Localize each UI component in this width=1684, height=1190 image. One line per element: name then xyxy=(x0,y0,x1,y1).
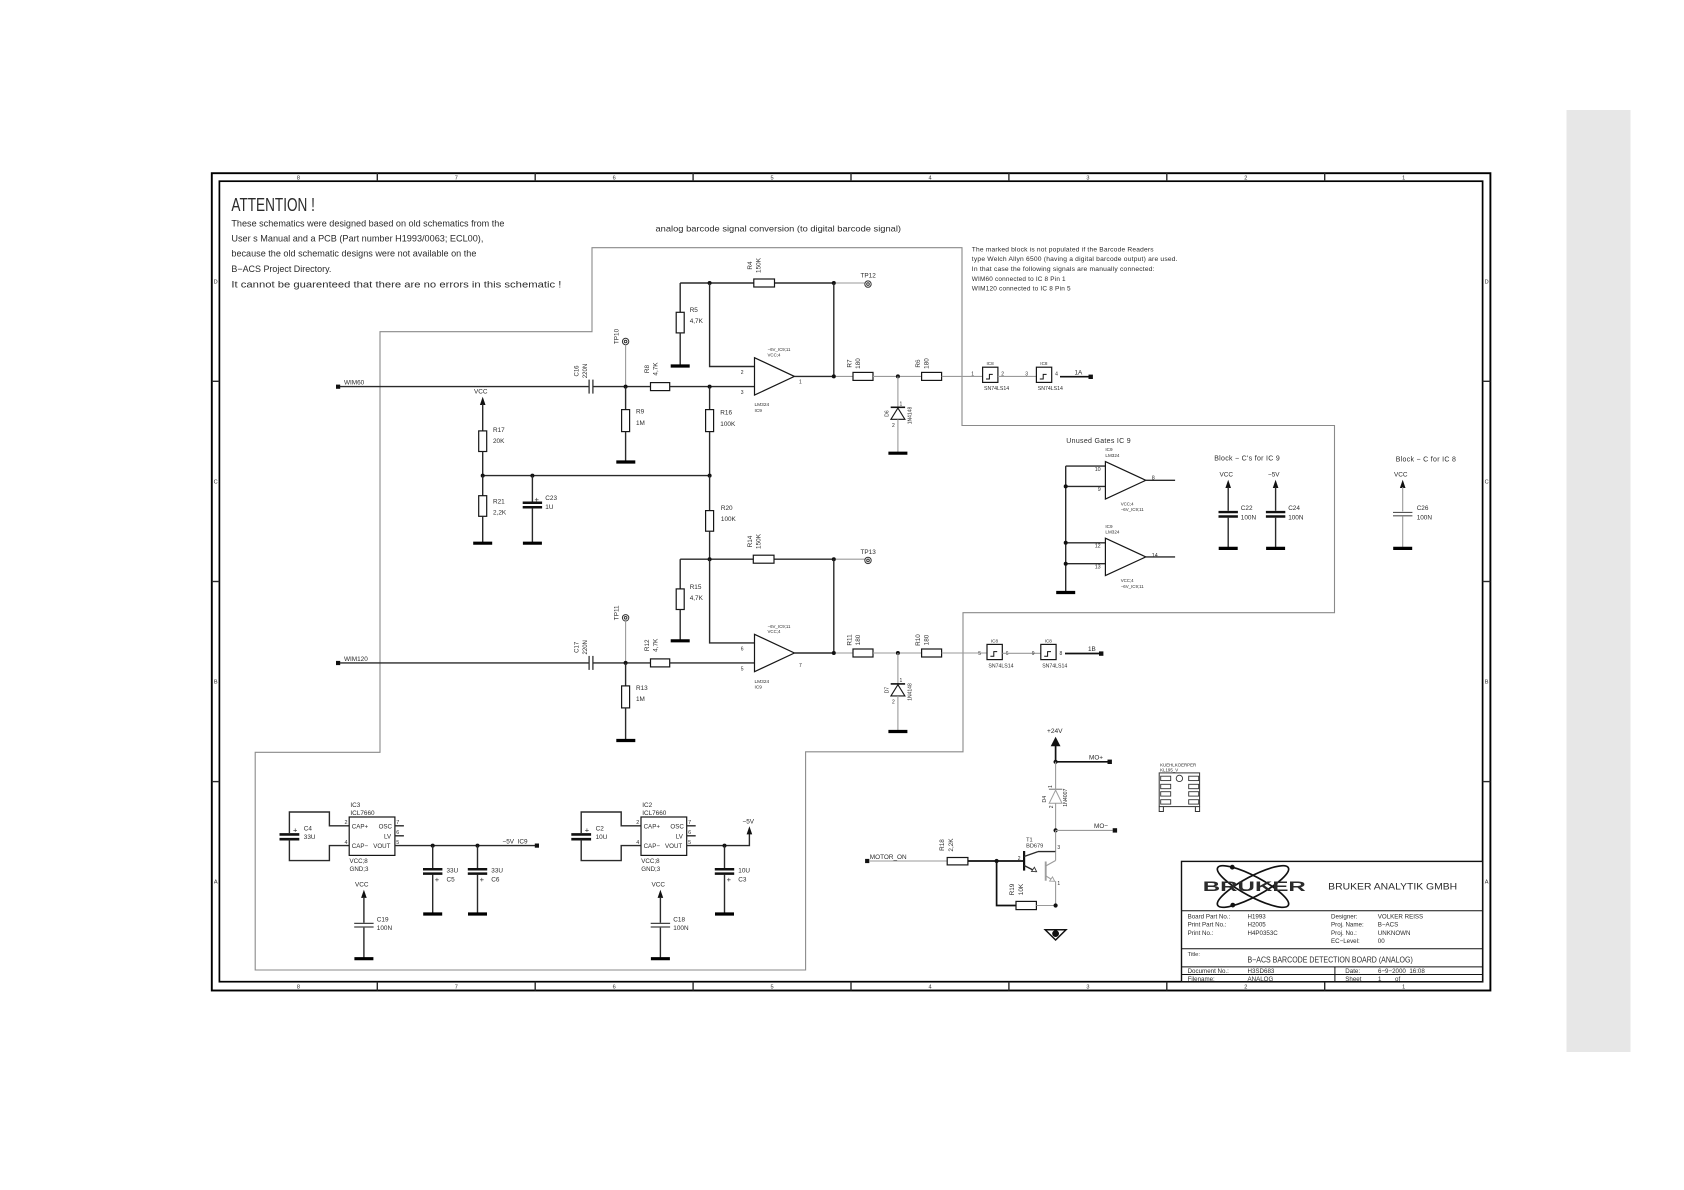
svg-text:2: 2 xyxy=(1018,856,1021,862)
svg-text:10: 10 xyxy=(1095,467,1101,473)
svg-text:VCC;4: VCC;4 xyxy=(1121,578,1134,583)
resistor R16 xyxy=(706,387,736,476)
svg-text:C18: C18 xyxy=(673,916,685,923)
power VCC arrow above C19 xyxy=(355,882,369,923)
svg-text:10U: 10U xyxy=(738,868,750,875)
svg-text:9: 9 xyxy=(1098,487,1101,493)
svg-text:These schematics were designed: These schematics were designed based on … xyxy=(231,218,504,228)
node junction feedback/TP13 xyxy=(832,557,836,561)
svg-text:6−9−2000_16:08: 6−9−2000_16:08 xyxy=(1378,968,1425,975)
wire IC2 VOUT to -5V arrow xyxy=(687,833,750,846)
svg-text:VCC: VCC xyxy=(355,882,369,889)
IC U IC3 ICL7660 xyxy=(345,802,400,873)
svg-text:WIM60 connected to IC 8 Pin 1: WIM60 connected to IC 8 Pin 1 xyxy=(972,276,1066,283)
ground under C22 xyxy=(1219,547,1238,550)
node WIM60 input xyxy=(336,380,365,389)
capacitor C4 xyxy=(280,825,316,841)
svg-text:1N4148: 1N4148 xyxy=(908,683,914,701)
svg-text:LV: LV xyxy=(676,833,684,840)
ground under D6 xyxy=(888,452,907,455)
svg-text:VCC: VCC xyxy=(652,882,666,889)
resistor R8 xyxy=(644,362,670,391)
wire C4 to IC3 CAP- xyxy=(289,840,349,861)
wire pin9 stub xyxy=(1064,484,1106,488)
op-amp U IC9D unused xyxy=(1095,524,1158,589)
wire IC9D output stub xyxy=(1146,556,1175,558)
svg-text:C2: C2 xyxy=(596,825,605,832)
svg-text:R17: R17 xyxy=(493,427,505,434)
wire R12 to opamp pin5 xyxy=(670,662,755,664)
Bruker logo xyxy=(1203,859,1306,914)
wire WIM60 to C16 xyxy=(340,386,589,388)
resistor R11 xyxy=(847,634,874,657)
node junction C3 tap xyxy=(723,844,727,848)
node MO+ terminal xyxy=(1089,754,1112,764)
document row xyxy=(1188,968,1426,983)
wire pin6 branch xyxy=(710,559,755,643)
svg-text:C: C xyxy=(214,480,218,486)
resistor R10 xyxy=(915,634,942,657)
svg-text:ICL7660: ICL7660 xyxy=(350,810,375,817)
svg-text:ATTENTION !: ATTENTION ! xyxy=(231,195,315,216)
svg-text:4,7K: 4,7K xyxy=(690,318,704,325)
svg-text:100N: 100N xyxy=(1241,515,1257,522)
svg-text:+: + xyxy=(585,825,590,834)
svg-text:CAP−: CAP− xyxy=(352,843,369,850)
svg-text:D7: D7 xyxy=(885,687,891,694)
inner drawing frame xyxy=(219,181,1482,982)
test point TP13 xyxy=(861,549,877,564)
svg-text:C24: C24 xyxy=(1288,505,1300,512)
wire R11 to R10 xyxy=(873,652,922,654)
svg-text:180: 180 xyxy=(855,358,862,369)
svg-text:20K: 20K xyxy=(493,438,505,445)
svg-text:2,2K: 2,2K xyxy=(493,510,507,517)
wire IC9C output stub xyxy=(1146,479,1175,481)
svg-text:of: of xyxy=(1395,976,1400,983)
svg-text:B−ACS Project Directory.: B−ACS Project Directory. xyxy=(231,264,331,274)
node junction D6 tap xyxy=(896,374,900,378)
power VCC arrow above R17 xyxy=(474,389,488,431)
svg-text:1: 1 xyxy=(900,678,903,684)
ground under C19 xyxy=(354,957,373,960)
svg-text:−6V_IC9;11: −6V_IC9;11 xyxy=(768,624,792,629)
wire R19 to emitter xyxy=(1036,905,1055,907)
svg-text:1: 1 xyxy=(900,402,903,408)
svg-text:R9: R9 xyxy=(636,409,645,416)
svg-text:KL195_V: KL195_V xyxy=(1160,768,1178,773)
svg-text:8: 8 xyxy=(297,176,300,182)
svg-text:4: 4 xyxy=(928,985,931,991)
svg-text:because the old schematic desi: because the old schematic designs were n… xyxy=(231,249,476,259)
board title xyxy=(1188,952,1413,965)
wire R5 branch vertical xyxy=(679,283,681,312)
wire R15 branch vertical xyxy=(679,559,681,589)
svg-text:Proj. No.:: Proj. No.: xyxy=(1331,930,1357,937)
svg-text:150K: 150K xyxy=(756,257,763,273)
svg-text:3: 3 xyxy=(1086,176,1089,182)
svg-text:5: 5 xyxy=(741,666,744,672)
svg-text:2: 2 xyxy=(1244,985,1247,991)
power -5V arrow for IC2 xyxy=(743,818,755,834)
svg-text:VCC: VCC xyxy=(474,389,488,396)
svg-text:−5V: −5V xyxy=(743,818,755,825)
svg-text:IC8: IC8 xyxy=(987,361,995,366)
wire feedback down to output xyxy=(833,283,835,376)
resistor R12 xyxy=(644,638,670,667)
svg-text:Proj. Name:: Proj. Name: xyxy=(1331,922,1364,929)
svg-text:IC3: IC3 xyxy=(350,802,360,809)
power VCC arrow above C26 xyxy=(1394,472,1408,512)
svg-text:R7: R7 xyxy=(847,359,854,368)
svg-text:Block − C for IC 8: Block − C for IC 8 xyxy=(1396,456,1456,463)
wire TP10 stem xyxy=(625,345,627,387)
wire R7 to R6 xyxy=(873,375,922,377)
sheet caption: analog barcode signal conversion xyxy=(656,224,902,234)
svg-text:13: 13 xyxy=(1095,564,1101,570)
resistor R21 xyxy=(479,476,507,544)
wire feedback line ch1 xyxy=(680,282,865,284)
power -5V arrow above C24 xyxy=(1268,472,1280,511)
wire MOTOR_ON to R18 xyxy=(869,860,947,862)
svg-text:1M: 1M xyxy=(636,696,645,703)
capacitor C22 xyxy=(1219,505,1257,548)
svg-text:type Welch Allyn 6500 (having: type Welch Allyn 6500 (having a digital … xyxy=(972,256,1178,263)
node junction MO- xyxy=(1054,828,1058,832)
svg-text:D: D xyxy=(1485,279,1489,285)
attention body text xyxy=(231,218,561,290)
svg-text:H4P0353C: H4P0353C xyxy=(1248,930,1279,937)
ground bar under C6 xyxy=(468,912,487,915)
svg-text:D6: D6 xyxy=(885,410,891,417)
svg-text:B−ACS BARCODE DETECTION BOARD: B−ACS BARCODE DETECTION BOARD (ANALOG) xyxy=(1248,956,1414,965)
node junction C23 tap xyxy=(530,474,534,478)
op-amp U IC9A xyxy=(741,347,802,414)
note text block xyxy=(972,246,1178,292)
part numbers xyxy=(1188,913,1424,945)
svg-text:LM324: LM324 xyxy=(1105,529,1119,534)
node junction feedback top of pin2 xyxy=(708,281,712,285)
wire pin12 stub xyxy=(1064,541,1106,545)
svg-text:Print No.:: Print No.: xyxy=(1188,930,1214,937)
svg-text:VCC: VCC xyxy=(1394,472,1408,479)
svg-text:IC8: IC8 xyxy=(1045,638,1053,643)
resistor R15 xyxy=(676,584,703,641)
capacitor C16 xyxy=(575,364,593,394)
svg-text:C6: C6 xyxy=(491,876,500,883)
svg-text:00: 00 xyxy=(1378,938,1385,945)
svg-text:VOLKER REISS: VOLKER REISS xyxy=(1378,913,1423,920)
svg-text:WIM60: WIM60 xyxy=(344,380,365,387)
svg-text:100N: 100N xyxy=(1417,515,1433,522)
wire IC8D output to 1B xyxy=(1065,653,1101,655)
node junction MO+ xyxy=(1054,760,1058,764)
title block border xyxy=(1182,861,1483,981)
svg-text:Document No.:: Document No.: xyxy=(1188,968,1230,975)
svg-text:R11: R11 xyxy=(847,634,854,646)
resistor R5 xyxy=(676,307,703,366)
ATTENTION heading xyxy=(231,195,315,216)
schmitt trigger IC8D xyxy=(1032,638,1068,669)
svg-text:2: 2 xyxy=(1049,805,1055,808)
svg-text:100N: 100N xyxy=(377,925,393,932)
IC U IC2 ICL7660 xyxy=(636,802,691,873)
svg-text:2: 2 xyxy=(892,700,895,706)
transistor T1 BD679 xyxy=(1018,838,1061,906)
svg-text:H3SD683: H3SD683 xyxy=(1248,968,1275,975)
wire R19 branch xyxy=(997,861,1016,906)
svg-text:LM324: LM324 xyxy=(755,679,770,685)
wire pin13 stub xyxy=(1064,562,1106,566)
svg-text:B: B xyxy=(1485,680,1489,686)
svg-text:180: 180 xyxy=(855,634,862,645)
svg-text:BD679: BD679 xyxy=(1026,844,1043,850)
svg-text:VCC;4: VCC;4 xyxy=(768,629,781,634)
svg-text:4: 4 xyxy=(928,176,931,182)
svg-text:TP10: TP10 xyxy=(614,328,621,344)
svg-text:R19: R19 xyxy=(1009,883,1016,895)
svg-text:33U: 33U xyxy=(447,868,459,875)
svg-text:12: 12 xyxy=(1095,544,1101,550)
node 1A output xyxy=(1075,369,1093,379)
svg-text:VCC;4: VCC;4 xyxy=(1121,501,1134,506)
svg-text:1: 1 xyxy=(1378,976,1382,983)
svg-text:100N: 100N xyxy=(673,925,689,932)
svg-text:1: 1 xyxy=(1048,785,1054,788)
svg-text:R16: R16 xyxy=(720,410,732,417)
svg-text:220N: 220N xyxy=(583,364,589,378)
svg-text:Print Part No.:: Print Part No.: xyxy=(1188,922,1227,929)
svg-text:LM324: LM324 xyxy=(1105,453,1119,458)
wire C2 to IC2 CAP- xyxy=(581,840,641,861)
svg-text:IC9: IC9 xyxy=(755,685,763,691)
svg-text:1N4148: 1N4148 xyxy=(908,407,914,425)
svg-text:SN74LS14: SN74LS14 xyxy=(1038,386,1063,392)
schmitt trigger IC8B xyxy=(1025,361,1063,392)
capacitor C23 xyxy=(523,476,558,544)
svg-text:4,7K: 4,7K xyxy=(690,595,704,602)
svg-text:1: 1 xyxy=(1402,176,1405,182)
ground bar under C3 xyxy=(715,912,734,915)
node 1B output xyxy=(1088,646,1103,656)
capacitor C2 xyxy=(571,825,607,841)
test point TP11 xyxy=(614,605,629,621)
wire pin2 branch xyxy=(710,283,755,367)
ground under C18 xyxy=(651,957,670,960)
wire C4 to IC3 CAP+ xyxy=(289,812,349,834)
node MOTOR_ON input xyxy=(865,854,907,863)
svg-text:LV: LV xyxy=(384,833,392,840)
wire IC2 OSC stub xyxy=(687,825,696,827)
svg-text:6: 6 xyxy=(741,646,744,652)
node junction WIM60/R9 xyxy=(624,385,628,389)
capacitor C5 xyxy=(423,846,459,914)
svg-text:VOUT: VOUT xyxy=(665,843,682,850)
node junction base/R19 xyxy=(995,859,999,863)
node MO- terminal xyxy=(1094,823,1117,833)
svg-text:R8: R8 xyxy=(644,364,651,373)
ground under unused gates bus xyxy=(1056,591,1075,594)
svg-text:C19: C19 xyxy=(377,916,389,923)
svg-text:VCC: VCC xyxy=(1220,472,1234,479)
svg-text:GND;3: GND;3 xyxy=(641,866,660,873)
svg-text:−5V: −5V xyxy=(1268,472,1280,479)
svg-text:C4: C4 xyxy=(304,825,313,832)
svg-text:R10: R10 xyxy=(915,634,922,646)
svg-text:1A: 1A xyxy=(1075,369,1084,376)
diode D7 xyxy=(885,653,914,732)
diode D4 xyxy=(1042,785,1069,830)
svg-text:The marked block is not popula: The marked block is not populated if the… xyxy=(972,246,1154,253)
svg-text:BRUKER: BRUKER xyxy=(1203,879,1306,894)
svg-text:8: 8 xyxy=(1060,651,1063,657)
node junction WIM120/R13 xyxy=(624,661,628,665)
zone letters left xyxy=(214,279,218,885)
label block C for IC8 xyxy=(1396,456,1456,463)
svg-text:Filename:: Filename: xyxy=(1188,976,1215,983)
wire IC8C to IC8D xyxy=(1002,652,1041,654)
svg-text:4: 4 xyxy=(636,840,639,846)
zone numbers top xyxy=(297,176,1405,182)
svg-text:WIM120: WIM120 xyxy=(344,656,368,663)
svg-text:IC8: IC8 xyxy=(1040,361,1048,366)
svg-text:It cannot be guarenteed that t: It cannot be guarenteed that there are n… xyxy=(231,279,561,290)
power VCC arrow above C18 xyxy=(652,882,666,923)
svg-text:CAP−: CAP− xyxy=(644,843,661,850)
wire C2 to IC2 CAP+ xyxy=(581,812,641,834)
ground symbol below emitter xyxy=(1045,930,1066,940)
svg-text:IC8: IC8 xyxy=(991,638,999,643)
schmitt trigger IC8C xyxy=(978,638,1013,669)
title block dividers xyxy=(1182,911,1483,982)
svg-text:+: + xyxy=(480,875,485,884)
svg-text:H1993: H1993 xyxy=(1248,913,1267,920)
svg-text:C26: C26 xyxy=(1417,505,1429,512)
svg-text:+: + xyxy=(435,875,440,884)
resistor R4 xyxy=(747,257,775,287)
capacitor C26 xyxy=(1393,505,1432,548)
schmitt trigger IC8A xyxy=(971,361,1009,392)
wire bias line xyxy=(483,475,710,477)
svg-text:analog barcode signal conversi: analog barcode signal conversion (to dig… xyxy=(656,224,902,234)
svg-text:2: 2 xyxy=(741,370,744,376)
svg-text:SN74LS14: SN74LS14 xyxy=(988,663,1013,669)
op-amp U IC9B xyxy=(741,624,802,691)
svg-text:IC9: IC9 xyxy=(1105,524,1113,529)
capacitor C3 xyxy=(715,846,751,914)
svg-text:R4: R4 xyxy=(747,261,754,270)
svg-text:8: 8 xyxy=(297,985,300,991)
node junction output2/feedback xyxy=(832,651,836,655)
svg-text:Board Part No.:: Board Part No.: xyxy=(1188,913,1231,920)
capacitor C17 xyxy=(575,640,593,670)
svg-text:R15: R15 xyxy=(690,584,702,591)
svg-text:B−ACS: B−ACS xyxy=(1378,922,1398,929)
ground under C23 xyxy=(523,542,542,545)
wire R6 to IC8 pin1 xyxy=(942,375,983,377)
svg-text:C16: C16 xyxy=(575,365,581,377)
svg-text:9: 9 xyxy=(1032,651,1035,657)
svg-text:IC2: IC2 xyxy=(642,802,652,809)
ground under C24 xyxy=(1266,547,1285,550)
wire opamp2 output xyxy=(794,652,853,654)
svg-text:220N: 220N xyxy=(583,640,589,654)
svg-text:+: + xyxy=(293,825,298,834)
node junction R17/R21 xyxy=(481,474,485,478)
svg-text:1U: 1U xyxy=(545,504,554,511)
svg-text:−6V_IC9;11: −6V_IC9;11 xyxy=(1121,507,1145,512)
svg-text:2,2K: 2,2K xyxy=(948,838,955,852)
svg-text:100K: 100K xyxy=(721,516,737,523)
svg-text:Unused Gates IC 9: Unused Gates IC 9 xyxy=(1066,438,1131,445)
wire IC3 OSC stub xyxy=(395,825,404,827)
svg-text:−6V_IC9;11: −6V_IC9;11 xyxy=(1121,584,1145,589)
outer drawing frame xyxy=(212,173,1491,990)
svg-text:A: A xyxy=(214,880,218,886)
svg-text:A: A xyxy=(1485,880,1489,886)
svg-text:3: 3 xyxy=(1057,845,1060,851)
capacitor C18 xyxy=(651,916,689,958)
svg-text:OSC: OSC xyxy=(379,823,393,830)
svg-text:−6V_IC9;11: −6V_IC9;11 xyxy=(768,347,792,352)
svg-text:−5V IC9: −5V IC9 xyxy=(503,838,528,845)
ground under R15 xyxy=(671,639,690,642)
svg-text:Designer:: Designer: xyxy=(1331,913,1358,920)
svg-text:LM324: LM324 xyxy=(755,402,770,408)
svg-text:33U: 33U xyxy=(491,868,503,875)
svg-text:3: 3 xyxy=(1086,985,1089,991)
resistor R19 xyxy=(1009,883,1037,910)
svg-text:7: 7 xyxy=(455,176,458,182)
svg-text:Title:: Title: xyxy=(1188,952,1201,958)
svg-text:180: 180 xyxy=(924,358,931,369)
svg-text:MOTOR_ON: MOTOR_ON xyxy=(870,854,907,861)
capacitor C6 xyxy=(468,846,504,914)
svg-text:10U: 10U xyxy=(596,834,608,841)
ground bar under C5 xyxy=(423,912,442,915)
svg-text:150K: 150K xyxy=(756,533,763,549)
svg-text:4,7K: 4,7K xyxy=(653,638,660,652)
svg-text:SN74LS14: SN74LS14 xyxy=(1042,663,1067,669)
resistor R14 xyxy=(747,533,774,563)
svg-text:IC9: IC9 xyxy=(1105,447,1113,452)
svg-text:100N: 100N xyxy=(1288,515,1304,522)
power VCC arrow above C22 xyxy=(1220,472,1234,511)
svg-text:3: 3 xyxy=(741,390,744,396)
node junction emitter/R19 xyxy=(1054,903,1058,907)
node junction R20/feedback ch2 xyxy=(708,557,712,561)
svg-text:UNKNOWN: UNKNOWN xyxy=(1378,930,1411,937)
svg-text:Sheet: Sheet xyxy=(1345,976,1361,983)
svg-text:1: 1 xyxy=(799,380,802,386)
svg-text:4: 4 xyxy=(1055,372,1058,378)
svg-text:3: 3 xyxy=(1025,372,1028,378)
zone ticks top band xyxy=(377,173,1324,181)
svg-text:1: 1 xyxy=(971,372,974,378)
power +24V arrow xyxy=(1047,728,1063,762)
svg-text:180: 180 xyxy=(924,634,931,645)
svg-text:R21: R21 xyxy=(493,499,505,506)
svg-text:2: 2 xyxy=(1244,176,1247,182)
node junction D7 tap xyxy=(896,651,900,655)
svg-text:1M: 1M xyxy=(636,420,645,427)
zone numbers bottom xyxy=(297,985,1405,991)
resistor R20 xyxy=(706,476,737,560)
svg-text:R5: R5 xyxy=(690,307,699,314)
svg-text:OSC: OSC xyxy=(670,823,684,830)
svg-text:In that case the following sig: In that case the following signals are m… xyxy=(972,266,1155,273)
svg-text:EC−Level:: EC−Level: xyxy=(1331,938,1360,945)
